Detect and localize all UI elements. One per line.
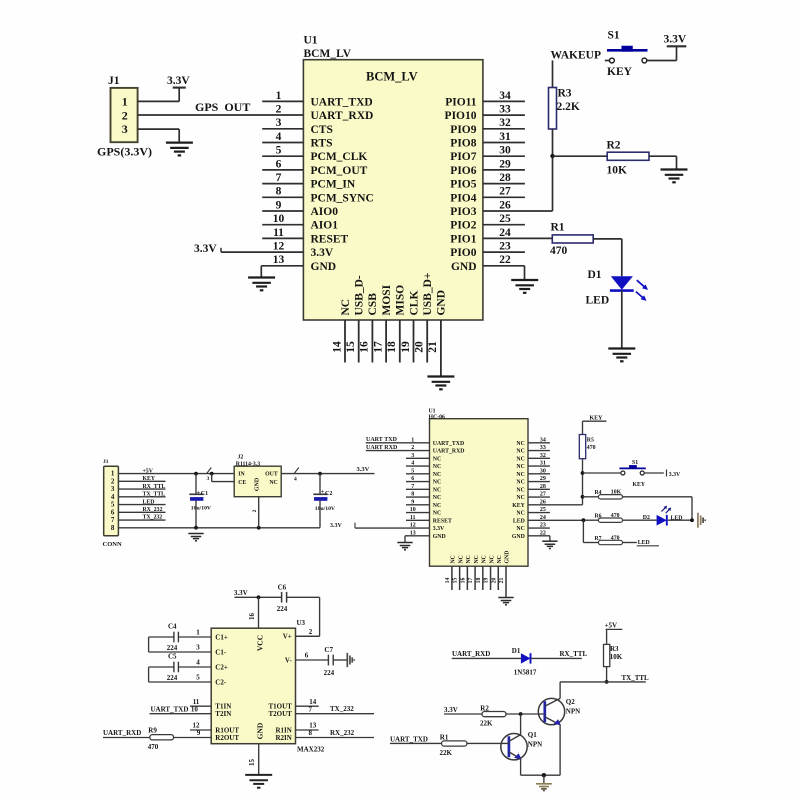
svg-text:3.3V: 3.3V <box>330 523 343 529</box>
svg-text:V+: V+ <box>283 633 292 641</box>
svg-text:BCM_LV: BCM_LV <box>304 48 352 60</box>
svg-text:224: 224 <box>277 605 288 613</box>
svg-text:GPS(3.3V): GPS(3.3V) <box>97 145 152 159</box>
svg-text:S1: S1 <box>632 460 638 466</box>
svg-text:3: 3 <box>196 644 200 652</box>
svg-text:224: 224 <box>324 669 335 677</box>
svg-text:UART_RXD: UART_RXD <box>103 729 141 737</box>
svg-text:24: 24 <box>499 227 511 239</box>
svg-text:R3: R3 <box>558 88 572 100</box>
svg-text:NC: NC <box>516 441 524 447</box>
svg-text:TX_232: TX_232 <box>330 705 354 713</box>
svg-text:PIO2: PIO2 <box>450 220 476 232</box>
svg-text:NC: NC <box>451 555 457 563</box>
svg-text:3.3V: 3.3V <box>167 75 190 87</box>
svg-text:UART TXD: UART TXD <box>366 437 398 443</box>
svg-text:22K: 22K <box>480 720 493 728</box>
svg-text:LED: LED <box>143 499 155 505</box>
svg-text:R2IN: R2IN <box>275 734 291 742</box>
svg-text:10K: 10K <box>611 490 622 496</box>
svg-text:NC: NC <box>474 555 480 563</box>
svg-text:WAKEUP: WAKEUP <box>551 49 601 61</box>
svg-text:NC: NC <box>433 456 441 462</box>
svg-text:470: 470 <box>611 513 620 519</box>
svg-text:19: 19 <box>400 341 412 353</box>
svg-text:UART_TXD: UART_TXD <box>433 441 464 447</box>
svg-text:3.3V: 3.3V <box>664 34 687 46</box>
svg-text:CE: CE <box>238 480 246 486</box>
svg-text:C1-: C1- <box>215 648 227 656</box>
svg-text:R3: R3 <box>610 645 619 653</box>
svg-text:4: 4 <box>276 131 282 143</box>
svg-text:UART_RXD: UART_RXD <box>433 449 465 455</box>
svg-text:1: 1 <box>276 90 282 102</box>
svg-text:NC: NC <box>433 480 441 486</box>
svg-text:R4: R4 <box>595 490 602 496</box>
svg-text:10: 10 <box>273 213 285 225</box>
svg-text:17: 17 <box>468 578 474 584</box>
svg-text:13: 13 <box>273 254 285 266</box>
svg-text:21: 21 <box>499 578 505 584</box>
svg-text:16: 16 <box>359 341 371 353</box>
svg-text:RX_TTL: RX_TTL <box>560 650 588 658</box>
svg-text:NC: NC <box>433 511 441 517</box>
svg-text:32: 32 <box>499 117 511 129</box>
svg-text:AIO1: AIO1 <box>311 220 339 232</box>
svg-text:C4: C4 <box>168 623 177 631</box>
svg-text:GND: GND <box>311 261 337 273</box>
svg-text:12: 12 <box>273 241 285 253</box>
svg-text:NPN: NPN <box>566 707 580 715</box>
svg-text:8: 8 <box>309 729 313 737</box>
svg-text:PIO11: PIO11 <box>445 96 477 108</box>
svg-text:16: 16 <box>248 613 256 621</box>
svg-text:PCM_SYNC: PCM_SYNC <box>311 192 374 204</box>
svg-text:29: 29 <box>499 158 511 170</box>
svg-text:PIO9: PIO9 <box>450 124 476 136</box>
svg-text:UART_RXD: UART_RXD <box>311 110 374 122</box>
svg-text:16: 16 <box>460 578 466 584</box>
svg-text:NC: NC <box>482 555 488 563</box>
svg-text:10u/10V: 10u/10V <box>191 505 212 511</box>
svg-text:KEY: KEY <box>512 503 525 509</box>
svg-text:GND: GND <box>433 534 446 540</box>
svg-text:NC: NC <box>433 487 441 493</box>
svg-text:4: 4 <box>294 477 297 483</box>
svg-text:22: 22 <box>499 254 511 266</box>
svg-text:U1: U1 <box>304 35 318 47</box>
svg-text:15: 15 <box>345 341 357 353</box>
svg-text:4: 4 <box>196 659 200 667</box>
svg-text:3.3V: 3.3V <box>311 247 334 259</box>
svg-text:14: 14 <box>445 578 451 584</box>
svg-text:R9: R9 <box>148 726 157 734</box>
svg-text:LED: LED <box>513 518 525 524</box>
svg-text:RX_232: RX_232 <box>143 507 163 513</box>
svg-text:R1: R1 <box>440 734 449 742</box>
svg-text:34: 34 <box>499 90 511 102</box>
svg-text:10: 10 <box>191 705 199 713</box>
svg-text:25: 25 <box>499 213 511 225</box>
svg-text:GPS OUT: GPS OUT <box>195 100 250 114</box>
svg-text:1: 1 <box>196 629 200 637</box>
svg-text:NC: NC <box>466 555 472 563</box>
svg-text:TX_232: TX_232 <box>143 515 163 521</box>
svg-text:Q1: Q1 <box>528 731 537 739</box>
svg-text:MISO: MISO <box>395 285 407 316</box>
svg-text:KEY: KEY <box>590 415 604 421</box>
svg-text:5: 5 <box>276 145 282 157</box>
svg-text:7: 7 <box>309 705 313 713</box>
svg-text:J2: J2 <box>238 455 244 461</box>
svg-text:T2OUT: T2OUT <box>268 710 292 718</box>
svg-text:KEY: KEY <box>633 482 646 488</box>
svg-text:3.3V: 3.3V <box>234 589 248 597</box>
svg-text:GND: GND <box>254 477 260 491</box>
svg-text:1: 1 <box>411 437 414 443</box>
svg-text:224: 224 <box>167 674 178 682</box>
svg-text:GND: GND <box>512 534 525 540</box>
svg-text:RTS: RTS <box>311 138 333 150</box>
svg-text:NC: NC <box>516 449 524 455</box>
svg-text:UART_TXD: UART_TXD <box>151 706 189 714</box>
svg-text:18: 18 <box>386 341 398 353</box>
svg-text:23: 23 <box>499 241 511 253</box>
svg-text:U3: U3 <box>297 619 306 627</box>
svg-text:J1: J1 <box>108 75 120 87</box>
svg-text:PIO0: PIO0 <box>450 247 476 259</box>
svg-text:C1: C1 <box>201 491 208 497</box>
svg-text:LED: LED <box>586 294 610 306</box>
svg-text:9: 9 <box>276 199 282 211</box>
svg-text:11: 11 <box>273 227 284 239</box>
svg-text:MAX232: MAX232 <box>297 745 325 753</box>
svg-text:PIO5: PIO5 <box>450 179 476 191</box>
svg-text:D2: D2 <box>643 515 650 521</box>
svg-text:3: 3 <box>122 122 128 136</box>
svg-text:TX_TTL: TX_TTL <box>143 492 166 498</box>
svg-text:GND: GND <box>451 261 477 273</box>
svg-text:33: 33 <box>499 104 511 116</box>
svg-text:224: 224 <box>167 644 178 652</box>
svg-text:2: 2 <box>411 445 414 451</box>
svg-text:OUT: OUT <box>265 472 278 478</box>
svg-text:NC: NC <box>516 487 524 493</box>
svg-text:30: 30 <box>499 145 511 157</box>
svg-text:3.3V: 3.3V <box>669 472 681 478</box>
svg-text:3.3V: 3.3V <box>433 526 445 532</box>
svg-text:NC: NC <box>433 503 441 509</box>
svg-text:NC: NC <box>516 480 524 486</box>
svg-text:VCC: VCC <box>255 635 264 651</box>
svg-text:C1+: C1+ <box>215 633 228 641</box>
svg-text:8: 8 <box>276 186 282 198</box>
svg-text:GND: GND <box>505 551 511 564</box>
svg-text:10u/10V: 10u/10V <box>315 506 336 512</box>
svg-text:NC: NC <box>516 526 524 532</box>
svg-text:RX_TTL: RX_TTL <box>143 484 166 490</box>
svg-text:NC: NC <box>269 480 277 486</box>
svg-text:R1114-3.3: R1114-3.3 <box>236 461 260 467</box>
svg-text:RESET: RESET <box>311 233 349 245</box>
svg-text:R6: R6 <box>595 514 602 520</box>
svg-text:NC: NC <box>340 299 352 316</box>
svg-text:C2: C2 <box>325 491 332 497</box>
svg-text:Q2: Q2 <box>566 698 575 706</box>
svg-text:PCM_IN: PCM_IN <box>311 179 356 191</box>
svg-text:C2-: C2- <box>215 678 227 686</box>
svg-text:R7: R7 <box>595 536 602 542</box>
svg-text:V-: V- <box>285 656 293 664</box>
svg-text:PCM_CLK: PCM_CLK <box>311 151 368 163</box>
svg-text:+5V: +5V <box>605 622 618 630</box>
svg-text:D1: D1 <box>588 269 602 281</box>
svg-text:CTS: CTS <box>311 124 333 136</box>
svg-text:31: 31 <box>499 131 511 143</box>
svg-text:470: 470 <box>611 536 620 542</box>
svg-text:R1: R1 <box>551 222 565 234</box>
svg-text:C2+: C2+ <box>215 663 228 671</box>
svg-text:PIO10: PIO10 <box>445 110 477 122</box>
svg-text:10K: 10K <box>610 653 623 661</box>
svg-text:NC: NC <box>516 464 524 470</box>
svg-text:J1: J1 <box>103 459 109 465</box>
svg-text:8: 8 <box>111 524 115 532</box>
svg-text:NC: NC <box>516 511 524 517</box>
svg-text:NC: NC <box>516 472 524 478</box>
svg-text:CLK: CLK <box>408 291 420 316</box>
svg-text:NC: NC <box>489 555 495 563</box>
svg-text:NC: NC <box>516 495 524 501</box>
svg-text:CONN: CONN <box>103 541 122 548</box>
svg-text:MOSI: MOSI <box>381 284 393 315</box>
svg-text:HC-06: HC-06 <box>429 414 446 420</box>
svg-text:6: 6 <box>276 158 282 170</box>
svg-text:15: 15 <box>453 578 459 584</box>
svg-text:T2IN: T2IN <box>215 710 231 718</box>
svg-text:22K: 22K <box>440 749 453 757</box>
svg-text:NC: NC <box>433 464 441 470</box>
svg-text:2: 2 <box>122 108 128 122</box>
svg-text:UART_TXD: UART_TXD <box>311 96 373 108</box>
svg-text:21: 21 <box>427 341 439 353</box>
svg-text:R5: R5 <box>587 438 594 444</box>
svg-text:UART_RXD: UART_RXD <box>452 650 490 658</box>
svg-text:TX_TTL: TX_TTL <box>622 674 650 682</box>
svg-text:2.2K: 2.2K <box>557 101 580 113</box>
svg-text:PIO4: PIO4 <box>450 192 476 204</box>
svg-text:+5V: +5V <box>143 468 154 474</box>
svg-text:10K: 10K <box>607 164 628 176</box>
svg-text:PIO6: PIO6 <box>450 165 476 177</box>
svg-text:20: 20 <box>414 341 426 353</box>
svg-text:1N5817: 1N5817 <box>514 669 537 677</box>
svg-text:PCM_OUT: PCM_OUT <box>311 165 368 177</box>
svg-text:15: 15 <box>248 759 256 767</box>
svg-text:NC: NC <box>433 472 441 478</box>
svg-text:R2OUT: R2OUT <box>215 734 239 742</box>
svg-text:IN: IN <box>238 472 245 478</box>
svg-text:S1: S1 <box>608 30 620 42</box>
svg-text:18: 18 <box>476 578 482 584</box>
svg-text:3: 3 <box>207 476 210 482</box>
svg-text:1: 1 <box>122 95 128 109</box>
svg-text:GND: GND <box>436 290 448 316</box>
svg-text:19: 19 <box>484 578 490 584</box>
svg-text:R2: R2 <box>607 139 621 151</box>
svg-text:PIO1: PIO1 <box>450 233 476 245</box>
svg-text:USB_D-: USB_D- <box>354 275 366 315</box>
svg-text:C7: C7 <box>324 646 333 654</box>
svg-text:14: 14 <box>331 341 343 353</box>
svg-text:RESET: RESET <box>433 518 452 524</box>
svg-text:2: 2 <box>252 509 258 512</box>
svg-text:2: 2 <box>309 628 313 636</box>
svg-text:NC: NC <box>433 495 441 501</box>
svg-text:PIO3: PIO3 <box>450 206 476 218</box>
svg-text:9: 9 <box>197 729 201 737</box>
svg-text:5: 5 <box>196 674 200 682</box>
svg-text:3: 3 <box>276 117 282 129</box>
svg-text:RX_232: RX_232 <box>330 729 355 737</box>
svg-text:7: 7 <box>276 172 282 184</box>
svg-text:D1: D1 <box>512 647 521 655</box>
svg-text:470: 470 <box>148 743 159 751</box>
svg-text:R2: R2 <box>480 704 489 712</box>
svg-text:GND: GND <box>255 722 264 739</box>
svg-text:28: 28 <box>499 172 511 184</box>
svg-text:LED: LED <box>638 540 650 546</box>
svg-text:UART_TXD: UART_TXD <box>390 736 428 744</box>
svg-text:20: 20 <box>491 578 497 584</box>
svg-text:470: 470 <box>550 245 568 257</box>
svg-text:2: 2 <box>276 104 282 116</box>
svg-text:470: 470 <box>587 445 596 451</box>
svg-text:KEY: KEY <box>143 476 156 482</box>
svg-text:NC: NC <box>458 555 464 563</box>
svg-text:3.3V: 3.3V <box>357 466 370 473</box>
svg-text:PIO8: PIO8 <box>450 138 476 150</box>
svg-text:USB_D+: USB_D+ <box>422 273 434 316</box>
svg-text:AIO0: AIO0 <box>311 206 339 218</box>
svg-text:17: 17 <box>372 341 384 353</box>
svg-text:KEY: KEY <box>607 66 633 78</box>
svg-text:LED: LED <box>671 515 683 521</box>
svg-text:NC: NC <box>516 456 524 462</box>
svg-text:PIO7: PIO7 <box>450 151 476 163</box>
svg-text:3.3V: 3.3V <box>444 706 458 714</box>
svg-text:NPN: NPN <box>528 740 542 748</box>
svg-text:NC: NC <box>497 555 503 563</box>
svg-text:C6: C6 <box>278 583 287 591</box>
svg-text:CSB: CSB <box>367 293 379 316</box>
svg-text:26: 26 <box>499 199 511 211</box>
svg-text:27: 27 <box>499 186 511 198</box>
svg-text:C5: C5 <box>168 653 177 661</box>
svg-text:BCM_LV: BCM_LV <box>366 70 418 84</box>
svg-text:6: 6 <box>305 652 309 660</box>
svg-text:3.3V: 3.3V <box>194 243 217 255</box>
